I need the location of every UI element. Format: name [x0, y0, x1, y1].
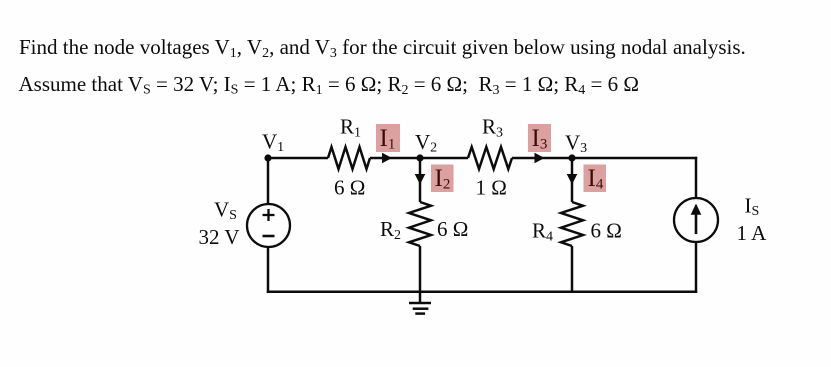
svg-text:R2: R2 [380, 217, 401, 243]
highlight label I2 [431, 165, 454, 193]
current arrow I2 [415, 174, 426, 185]
node V1 [264, 154, 271, 161]
svg-text:R1: R1 [340, 115, 361, 141]
wire: voltage source to bottom rail [267, 247, 270, 293]
current arrow I1 [382, 153, 392, 163]
current source Is [674, 198, 718, 242]
wire: node V2 down to resistor R2 [419, 158, 422, 202]
current arrow I3 [535, 153, 545, 163]
svg-text:V2: V2 [415, 130, 437, 156]
svg-text:V1: V1 [262, 130, 284, 156]
node V3 [568, 154, 575, 161]
svg-text:Find the node voltages V1, V2,: Find the node voltages V1, V2, and V3 fo… [19, 35, 746, 61]
resistor R1 [328, 147, 370, 169]
svg-text:32 V: 32 V [199, 225, 240, 249]
resistor R4 [561, 202, 583, 246]
svg-text:1 A: 1 A [737, 221, 768, 245]
wire top: node V1 to resistor R1 [268, 157, 328, 160]
bottom rail wire [267, 291, 697, 294]
svg-text:6 Ω: 6 Ω [437, 217, 468, 241]
svg-text:R3: R3 [482, 115, 503, 141]
wire: resistor R4 to bottom rail [571, 246, 574, 292]
highlight label I3 [528, 124, 551, 153]
resistor R3 [468, 147, 512, 169]
highlight label I1 [376, 124, 400, 153]
wire: node V2 to resistor R3 [420, 157, 468, 160]
resistor R2 [409, 202, 431, 246]
wire: resistor R3 to node V3 [512, 157, 572, 160]
svg-text:V3: V3 [565, 131, 587, 157]
highlight label I4 [584, 165, 607, 193]
svg-text:Assume that VS = 32 V; IS = 1: Assume that VS = 32 V; IS = 1 A; R1 = 6 … [19, 72, 640, 98]
svg-text:1 Ω: 1 Ω [476, 176, 507, 200]
svg-text:6 Ω: 6 Ω [591, 219, 622, 243]
svg-text:6 Ω: 6 Ω [334, 176, 365, 200]
wire: resistor R1 to node V2 [370, 157, 420, 160]
current arrow I4 [567, 174, 578, 185]
wire: current source to bottom rail [695, 242, 698, 293]
ground [409, 292, 431, 314]
wire: node V3 down to resistor R4 [571, 158, 574, 202]
svg-text:IS: IS [745, 194, 760, 220]
wire: node V1 down to voltage source [267, 158, 270, 204]
svg-text:VS: VS [214, 198, 237, 224]
wire: top rail right corner down to current source [695, 157, 698, 198]
node V2 [416, 154, 423, 161]
wire: resistor R2 to bottom rail [419, 246, 422, 292]
wire: node V3 to right corner [572, 157, 697, 160]
svg-text:R4: R4 [532, 219, 553, 245]
voltage source Vs [247, 204, 290, 247]
